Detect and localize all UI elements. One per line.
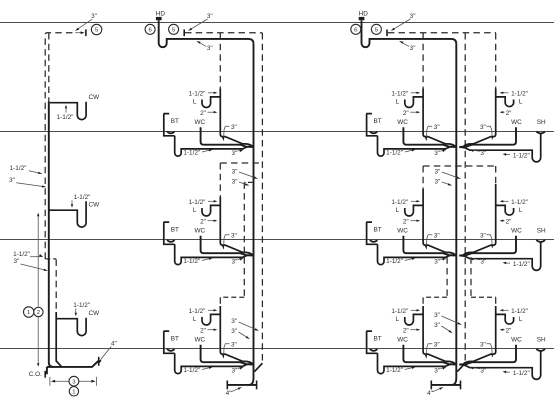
bathtub trap and waste floor3 (middle) [175, 353, 253, 373]
svg-text:1-1/2": 1-1/2" [391, 90, 408, 97]
lavatory drain drop floor2 (right-east) [463, 184, 495, 255]
lower CW riser dashed portion [55, 259, 57, 312]
svg-text:SH: SH [537, 119, 546, 126]
vent stack base reconnect (middle) [255, 363, 263, 371]
lavatory vent dashed floor2 (right-east) [495, 166, 497, 184]
arrow 1-1/2 lav floor2 (middle) [208, 200, 216, 202]
svg-text:WC: WC [194, 336, 205, 343]
arrow 1-1/2in shower floor3 (right-east) [505, 371, 511, 373]
svg-text:1-1/2": 1-1/2" [511, 308, 528, 315]
svg-text:3": 3" [434, 233, 440, 240]
leader 3in WC bend floor2 (middle) [224, 235, 230, 249]
leader 4in base (right) [433, 387, 444, 392]
leader 3in WC bend floor3 (middle) [224, 344, 230, 358]
svg-text:CW: CW [88, 202, 100, 209]
svg-text:L: L [396, 316, 400, 323]
leader pair2b (right) [441, 326, 452, 333]
bathtub BT floor1 (right) [366, 114, 377, 136]
arrow 1-1/2 lav floor2 (right) [411, 200, 419, 202]
svg-text:3": 3" [231, 150, 237, 157]
floor3 vent riser upper (middle) [243, 182, 245, 297]
svg-text:L: L [519, 316, 523, 323]
svg-text:3": 3" [410, 13, 416, 20]
floor3 vent jog (right-east) [471, 296, 496, 298]
floor3 lavatory vent dashed (middle) [219, 297, 221, 306]
svg-text:1-1/2": 1-1/2" [513, 261, 530, 268]
svg-text:4": 4" [111, 340, 117, 347]
svg-text:3": 3" [480, 233, 486, 240]
svg-text:SH: SH [537, 336, 546, 343]
arrow 2in lav floor1 (right-east) [502, 111, 505, 113]
svg-text:3": 3" [207, 45, 213, 52]
svg-text:2: 2 [37, 310, 40, 316]
svg-text:3": 3" [480, 259, 486, 266]
leader 3in vent header (right) [391, 19, 410, 31]
svg-text:3": 3" [480, 368, 486, 375]
shower SH floor2 (right-east) [536, 240, 545, 242]
leader pair1b (right) [442, 182, 452, 185]
leader 3in vent header (middle) [189, 19, 208, 31]
note bubble 6 (right) [351, 24, 361, 34]
svg-text:WC: WC [511, 336, 522, 343]
leader 3in junction floor2 (middle) [238, 258, 244, 260]
base drain tick left (right) [430, 381, 432, 390]
water closet drop floor3 (middle) [201, 345, 253, 365]
svg-text:1-1/2": 1-1/2" [386, 367, 403, 374]
svg-text:1: 1 [27, 310, 30, 316]
floor line 3 [0, 239, 554, 241]
svg-text:WC: WC [511, 119, 522, 126]
svg-text:WC: WC [397, 336, 408, 343]
leader 3in L bend floor1 (right-east) [487, 126, 493, 139]
riser designator leader line [37, 215, 39, 366]
svg-text:2": 2" [200, 218, 206, 225]
lavatory vent dashed floor2 (right) [422, 166, 424, 189]
svg-text:2": 2" [403, 110, 409, 117]
svg-text:WC: WC [511, 227, 522, 234]
water closet drop floor2 (right) [403, 236, 455, 256]
arrow 1-1/2 lav floor1 (right-east) [502, 92, 509, 94]
arrow 1-1/2in tub floor1 (right) [405, 150, 414, 152]
svg-text:CW: CW [88, 94, 100, 101]
arrow 2in lav floor1 (middle) [208, 111, 216, 113]
svg-text:3": 3" [232, 179, 238, 186]
arrow CW floor1 [65, 107, 67, 113]
arrow 1-1/2in tub floor3 (right) [405, 367, 414, 369]
lavatory vent dashed floor1 (middle) [219, 33, 221, 89]
svg-text:L: L [193, 207, 197, 214]
svg-text:3": 3" [231, 368, 237, 375]
leader 3in WC bend floor1 (right) [426, 126, 432, 140]
svg-text:BT: BT [171, 336, 179, 343]
leader 3in L bend floor2 (right-east) [487, 235, 493, 248]
svg-text:3": 3" [231, 342, 237, 349]
svg-text:BT: BT [171, 227, 179, 234]
water closet drop floor1 (right) [403, 127, 455, 147]
base drain tick right (middle) [256, 381, 258, 390]
leader pair1b (middle) [239, 182, 249, 185]
lavatory L trap floor2 (right) [405, 205, 423, 216]
water closet drop floor1 (middle) [201, 127, 253, 147]
arrow 1-1/2 lav floor1 (middle) [208, 92, 216, 94]
svg-text:1-1/2": 1-1/2" [189, 199, 206, 206]
arrow 1-1/2in shower floor2 (right-east) [505, 262, 511, 264]
lavatory vent dashed floor2 (middle) [219, 163, 221, 197]
riser bubble 1 [24, 307, 34, 317]
lavatory drain drop floor2 (middle) [220, 197, 252, 255]
vent stack 3in dashed (middle) [261, 33, 263, 363]
vent header 3in dashed (middle) [185, 32, 262, 34]
svg-text:1-1/2": 1-1/2" [386, 149, 403, 156]
svg-text:BT: BT [171, 118, 179, 125]
arrow 2in lav floor3 (middle) [208, 329, 216, 331]
svg-text:L: L [396, 98, 400, 105]
arrow 2in lav floor2 (right-east) [502, 220, 505, 222]
lavatory L trap floor3 (right) [405, 314, 423, 325]
base drain tick left (middle) [226, 381, 228, 390]
svg-text:L: L [519, 98, 523, 105]
svg-text:1-1/2": 1-1/2" [183, 258, 200, 265]
arrow 1-1/2in shower floor1 (right-east) [505, 154, 511, 156]
svg-text:CW: CW [88, 310, 100, 317]
riser bubble 2 [34, 307, 43, 316]
lavatory drain drop floor3 (middle) [220, 306, 252, 364]
floor3 vent riser upper (right-east) [470, 257, 472, 297]
lavatory drain drop floor1 (middle) [220, 89, 252, 147]
svg-text:3": 3" [480, 342, 486, 349]
leader 4in base (middle) [231, 387, 242, 392]
dimension bubble 3 [69, 376, 79, 386]
bathtub BT floor3 (middle) [164, 331, 175, 353]
svg-text:L: L [193, 98, 197, 105]
svg-text:1-1/2": 1-1/2" [391, 199, 408, 206]
floor line 1 [0, 22, 554, 24]
hub drain HD (right) [359, 17, 365, 20]
leader 3in junction floor2 (right) [440, 258, 446, 260]
svg-text:3": 3" [232, 169, 238, 176]
arrow 1-1/2in tub floor1 (middle) [202, 150, 211, 152]
soil stack 3in (middle) [249, 44, 254, 385]
svg-text:WC: WC [194, 119, 205, 126]
arrow CW floor2 [71, 200, 73, 205]
lavatory L trap floor3 (right-east) [496, 314, 514, 324]
floor line 4 [0, 348, 554, 350]
base drain 4in (middle) [227, 384, 256, 386]
leader 3in junction floor2 (right-east) [470, 258, 480, 260]
svg-text:1-1/2": 1-1/2" [10, 165, 27, 172]
svg-text:WC: WC [397, 119, 408, 126]
svg-text:1-1/2": 1-1/2" [511, 90, 528, 97]
svg-text:BT: BT [374, 227, 382, 234]
svg-text:BT: BT [374, 118, 382, 125]
vent A jog to lower riser [45, 258, 56, 260]
svg-text:WC: WC [397, 227, 408, 234]
lavatory L trap floor3 (middle) [202, 314, 220, 325]
arrow CW floor3 [75, 308, 77, 314]
lavatory vent dashed floor1 (right) [422, 33, 424, 89]
clothes washer standpipe CW floor 2 [49, 201, 86, 227]
note bubble 6 (middle) [145, 24, 155, 34]
svg-text:C.O.: C.O. [29, 371, 42, 378]
svg-text:HD: HD [359, 11, 369, 18]
svg-text:SH: SH [537, 227, 546, 234]
arrow 1-1/2 lav floor3 (right) [411, 309, 419, 311]
svg-text:1-1/2": 1-1/2" [74, 194, 91, 201]
svg-text:3": 3" [434, 368, 440, 375]
svg-text:1-1/2": 1-1/2" [13, 251, 30, 258]
arrow 2in lav floor3 (right) [410, 329, 418, 331]
svg-text:3": 3" [434, 322, 440, 329]
svg-text:3": 3" [480, 124, 486, 131]
lavatory drain drop floor3 (right) [423, 306, 455, 364]
svg-text:2": 2" [403, 327, 409, 334]
leader pair1a (middle) [239, 172, 258, 179]
svg-text:3": 3" [410, 45, 416, 52]
bathtub trap and waste floor1 (right) [378, 136, 456, 156]
floor3 lavatory vent dashed (right) [422, 297, 424, 306]
svg-text:3": 3" [9, 177, 15, 184]
leader pair2a (middle) [239, 322, 259, 331]
soil stack 3in (right) [452, 44, 457, 385]
arrow 1-1/2 lav floor1 (right) [411, 92, 419, 94]
drain end tick (left group) [98, 357, 100, 366]
leader 3in junction floor3 (right-east) [470, 367, 480, 369]
svg-text:1: 1 [72, 389, 75, 395]
svg-text:3": 3" [231, 328, 237, 335]
svg-text:WC: WC [194, 227, 205, 234]
leader 3in HD branch (middle) [197, 41, 206, 46]
svg-text:3": 3" [434, 169, 440, 176]
base drain 4in (right) [431, 384, 460, 386]
svg-text:4": 4" [226, 390, 232, 397]
water closet drop floor2 (right-east) [459, 236, 516, 256]
bathtub BT floor3 (right) [366, 331, 377, 353]
vent loop floor2 (middle) [220, 162, 262, 164]
svg-text:2": 2" [200, 327, 206, 334]
shower SH floor1 (right-east) [536, 132, 545, 134]
lavatory L trap floor2 (right-east) [496, 205, 514, 215]
leader 3in L bend floor3 (right-east) [487, 344, 493, 357]
svg-text:1-1/2": 1-1/2" [513, 152, 530, 159]
svg-text:3": 3" [434, 312, 440, 319]
svg-text:2": 2" [403, 218, 409, 225]
svg-text:1-1/2": 1-1/2" [511, 199, 528, 206]
vent header 3in dashed (right) [388, 32, 496, 34]
svg-text:1-1/2": 1-1/2" [386, 258, 403, 265]
clothes washer standpipe CW floor 1 [50, 102, 86, 120]
bathtub BT floor2 (right) [366, 222, 377, 244]
arrow 1-1/2in tub floor2 (middle) [202, 258, 211, 260]
leader 3in WC bend floor2 (right) [426, 235, 432, 249]
floor3 vent jog (right) [423, 296, 447, 298]
leader 3in junction floor1 (right) [440, 150, 446, 152]
svg-text:2": 2" [506, 327, 512, 334]
water closet drop floor2 (middle) [201, 236, 253, 256]
svg-text:3": 3" [231, 318, 237, 325]
svg-text:3": 3" [434, 179, 440, 186]
floor3 vent takeoff (middle) [244, 181, 252, 183]
cleanout tick [44, 371, 46, 378]
svg-text:3": 3" [13, 258, 19, 265]
svg-text:3": 3" [434, 342, 440, 349]
svg-text:1-1/2": 1-1/2" [391, 308, 408, 315]
lavatory vent dashed floor1 (right-east) [495, 33, 497, 89]
building drain 4in (left) [47, 361, 98, 374]
water closet drop floor3 (right-east) [459, 345, 516, 365]
svg-text:3": 3" [434, 259, 440, 266]
floor3 vent riser upper left (right) [446, 257, 448, 297]
leader 3in WC bend floor1 (middle) [224, 126, 230, 140]
lavatory L trap floor2 (middle) [202, 205, 220, 216]
hub drain HD (middle) [156, 17, 162, 20]
CW soil stack 3in (solid) [49, 102, 54, 367]
vent stack base reconnect (right) [457, 363, 465, 371]
arrow 2in lav floor3 (right-east) [502, 329, 505, 331]
water closet drop floor3 (right) [403, 345, 455, 365]
note bubble 5 (middle) [169, 24, 179, 34]
svg-text:4": 4" [427, 390, 433, 397]
svg-text:2": 2" [506, 218, 512, 225]
vent header tick (middle) [183, 29, 185, 36]
lavatory L trap floor1 (right-east) [496, 97, 514, 107]
svg-text:1-1/2": 1-1/2" [57, 114, 74, 121]
floor3 vent jog (middle) [220, 296, 244, 298]
svg-text:L: L [193, 316, 197, 323]
leader 4in left [99, 347, 111, 364]
bathtub trap and waste floor3 (right) [378, 353, 456, 373]
svg-text:3": 3" [231, 124, 237, 131]
leader pair2 vent [30, 256, 43, 258]
svg-text:L: L [519, 207, 523, 214]
dimension bubble 1 [69, 387, 78, 396]
vent stack 3in dashed (right) [464, 33, 466, 363]
svg-text:1-1/2": 1-1/2" [183, 367, 200, 374]
note bubble 5 (left) [91, 24, 101, 34]
svg-text:1-1/2": 1-1/2" [73, 302, 90, 309]
svg-text:1-1/2": 1-1/2" [189, 90, 206, 97]
CW soil stack 3in dashed upper portion [48, 33, 50, 102]
bathtub trap and waste floor2 (middle) [175, 244, 253, 264]
svg-text:3": 3" [434, 124, 440, 131]
svg-text:3": 3" [231, 233, 237, 240]
arrow 1-1/2in tub floor2 (right) [405, 258, 414, 260]
CW vent pipe 1-1/2in (dashed riser A) [45, 33, 75, 259]
arrow 1-1/2 lav floor3 (right-east) [502, 309, 509, 311]
leader pair1 vent [29, 171, 42, 174]
leader 3in HD branch (right) [400, 41, 409, 46]
vent continuation arrow to note 5 [75, 32, 83, 34]
arrow 1-1/2 lav floor2 (right-east) [502, 200, 509, 202]
leader 3in WC bend floor3 (right) [426, 344, 432, 358]
arrow 2in lav floor2 (middle) [208, 220, 216, 222]
leader pair2a (right) [441, 316, 461, 325]
leader pair1 soil [16, 183, 45, 187]
svg-text:1-1/2": 1-1/2" [183, 149, 200, 156]
svg-text:2": 2" [506, 110, 512, 117]
svg-text:3": 3" [231, 259, 237, 266]
svg-text:3": 3" [207, 13, 213, 20]
leader pair2 soil [21, 264, 48, 271]
svg-text:1-1/2": 1-1/2" [513, 370, 530, 377]
svg-text:1-1/2": 1-1/2" [189, 308, 206, 315]
lavatory drain drop floor2 (right) [423, 189, 455, 255]
bathtub BT floor2 (middle) [164, 222, 175, 244]
lavatory drain drop floor1 (right) [423, 89, 455, 147]
lower CW riser solid portion [56, 312, 62, 367]
svg-text:BT: BT [374, 336, 382, 343]
arrow 2in lav floor2 (right) [410, 220, 418, 222]
water closet drop floor1 (right-east) [459, 127, 516, 147]
leader 3in junction floor3 (middle) [238, 367, 244, 369]
dimension line under drain [50, 377, 97, 386]
floor3 lavatory vent dashed (right-east) [495, 297, 497, 306]
floor line 2 [0, 131, 554, 133]
bathtub trap and waste floor2 (right) [378, 244, 456, 264]
clothes washer standpipe CW floor 3 [56, 318, 86, 336]
lavatory L trap floor1 (middle) [202, 97, 220, 108]
vent header tick (right) [386, 29, 388, 36]
svg-text:L: L [396, 207, 400, 214]
leader pair2b (middle) [239, 332, 250, 339]
lavatory drain drop floor1 (right-east) [463, 89, 495, 147]
arrow 2in lav floor1 (right) [410, 111, 418, 113]
bathtub trap and waste floor1 (middle) [175, 136, 253, 156]
leader 3in junction floor1 (right-east) [470, 150, 480, 152]
lavatory drain drop floor3 (right-east) [463, 306, 495, 364]
svg-text:HD: HD [156, 11, 166, 18]
leader pair1a (right) [442, 172, 461, 179]
bathtub BT floor1 (middle) [164, 114, 175, 136]
shower SH floor3 (right-east) [536, 349, 545, 351]
lavatory L trap floor1 (right) [405, 97, 423, 108]
arrow 1-1/2in tub floor3 (middle) [202, 367, 211, 369]
vent loop floor2 (right) [423, 165, 496, 167]
leader for 3in left vent [76, 19, 93, 31]
svg-text:3": 3" [434, 150, 440, 157]
note bubble 5 (right) [371, 24, 381, 34]
leader 3in junction floor1 (middle) [238, 150, 244, 152]
svg-text:3": 3" [480, 150, 486, 157]
svg-text:2": 2" [200, 110, 206, 117]
base drain tick right (right) [460, 381, 462, 390]
arrow 1-1/2 lav floor3 (middle) [208, 309, 216, 311]
leader 3in junction floor3 (right) [440, 367, 446, 369]
